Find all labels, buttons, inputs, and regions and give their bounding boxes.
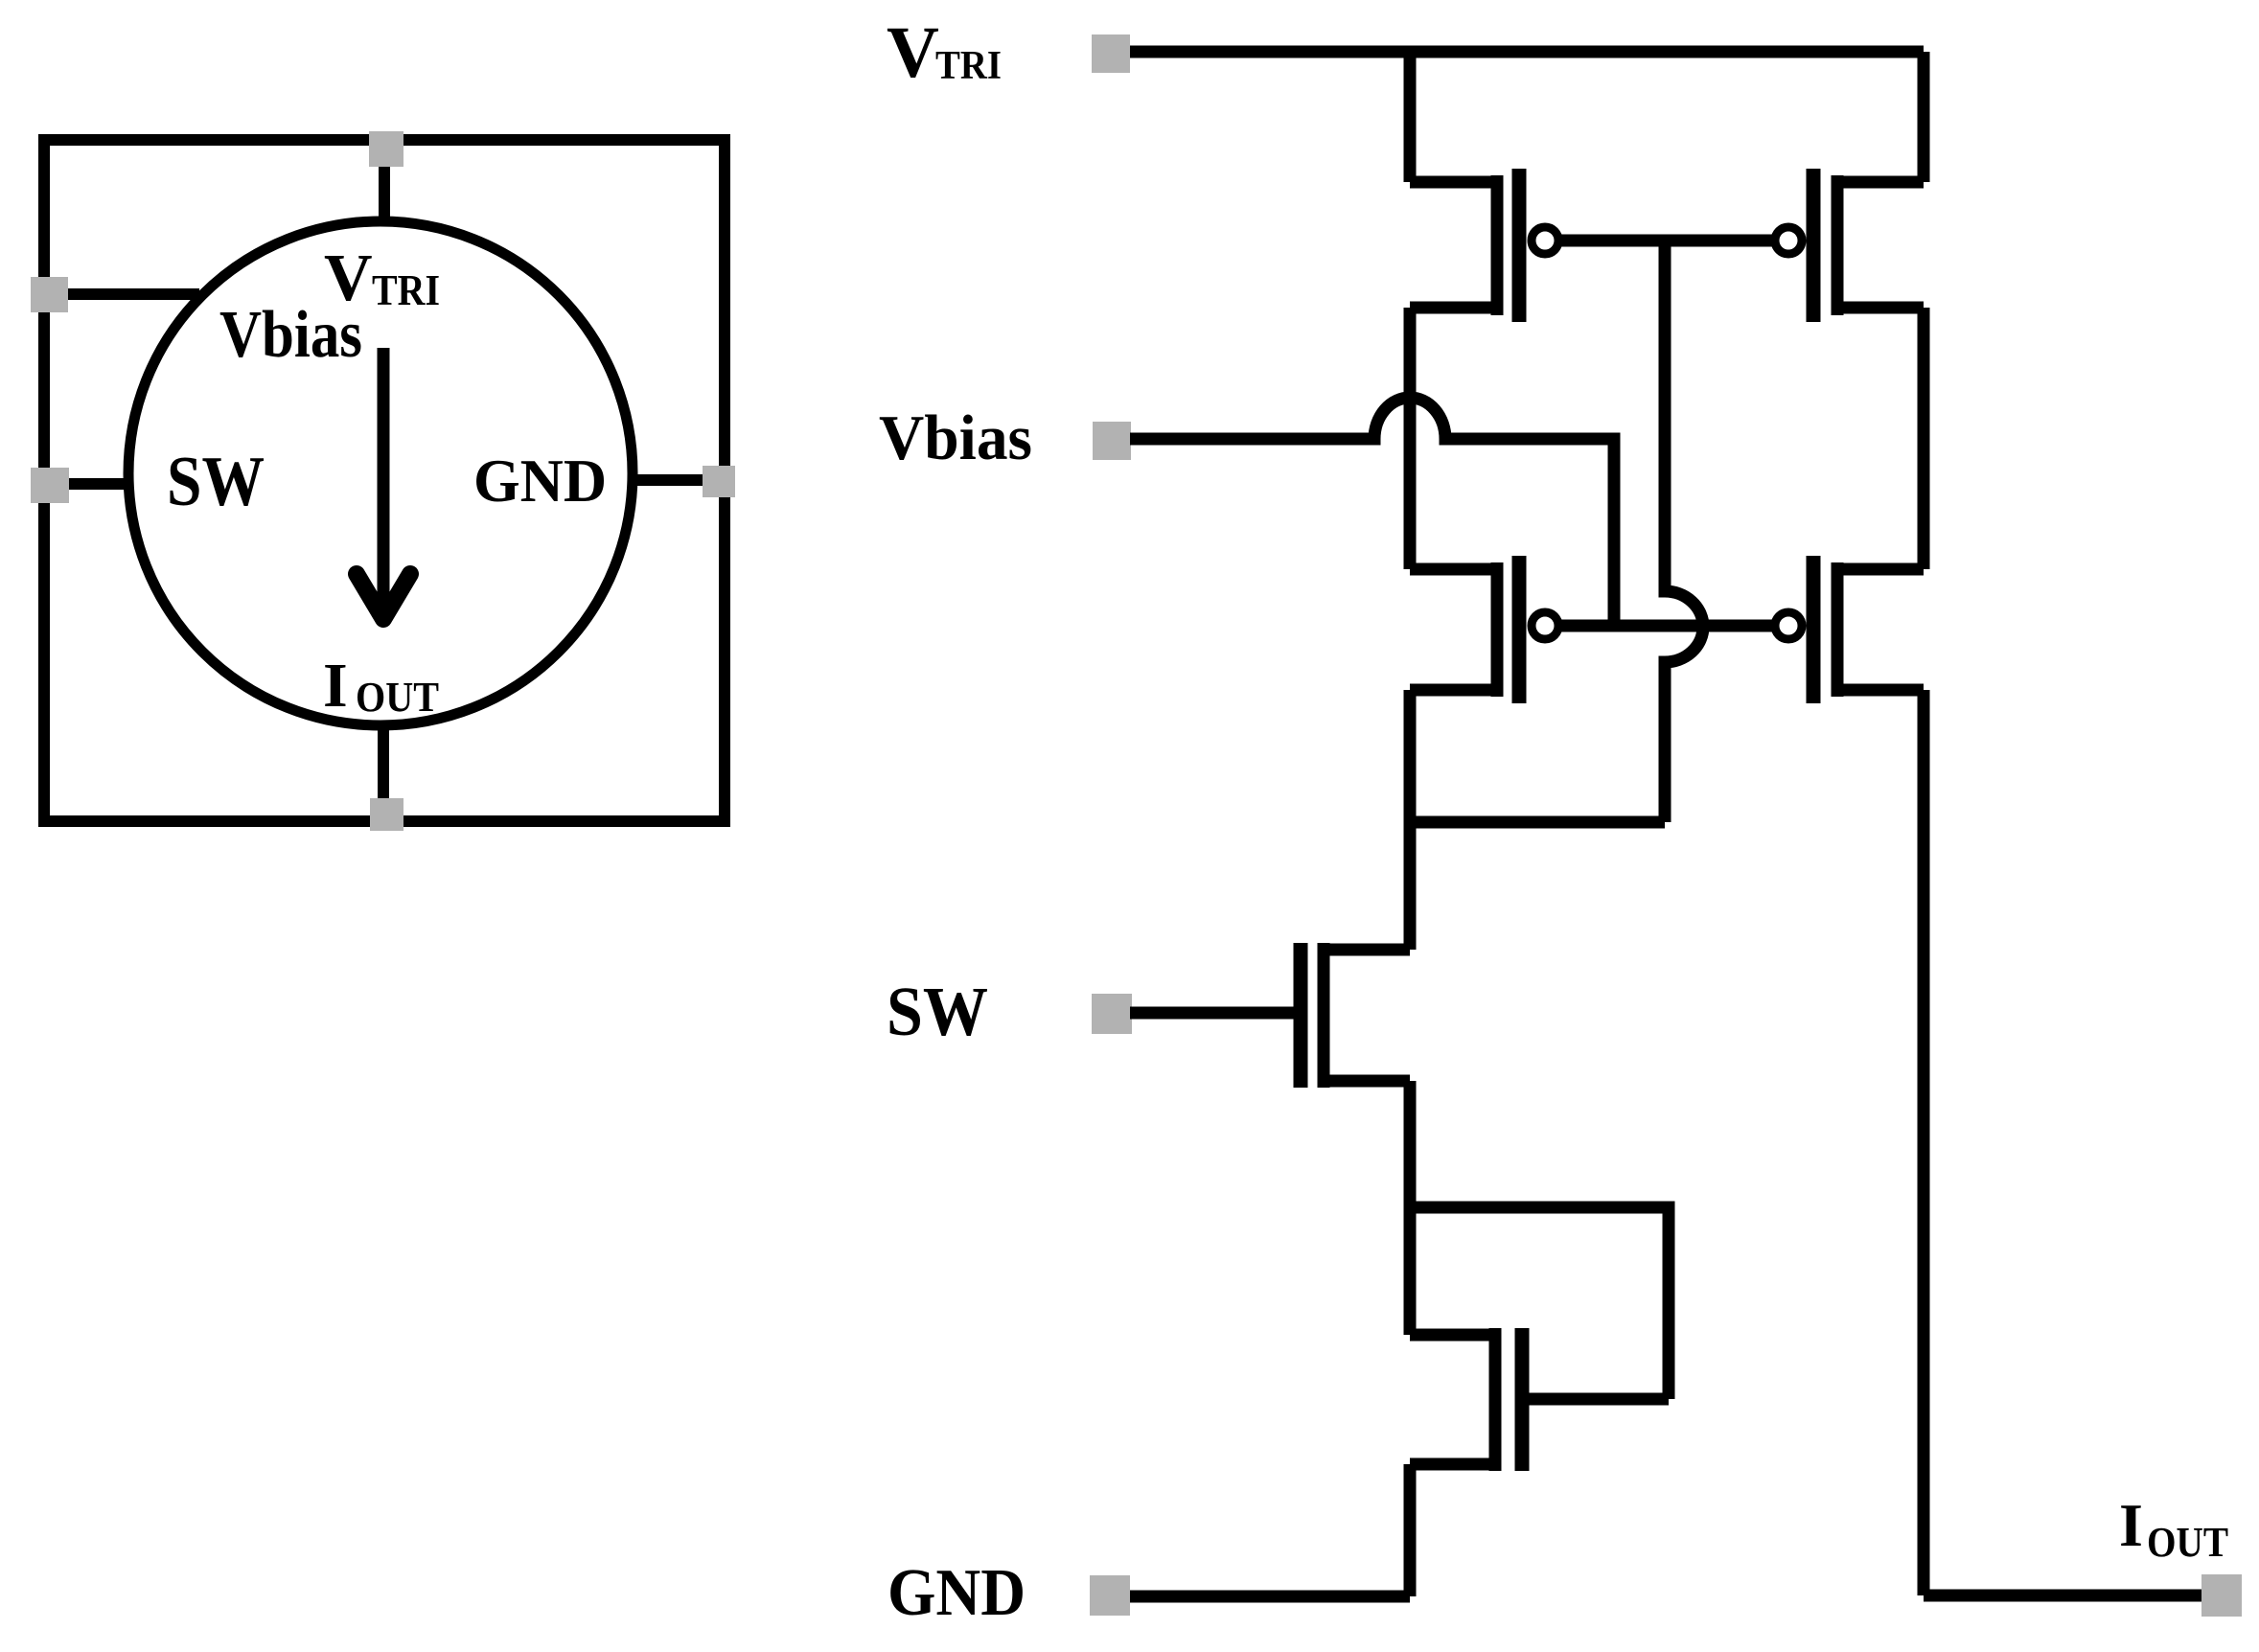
svg-text:SW: SW <box>167 443 265 521</box>
M5 gate bar <box>1294 943 1308 1088</box>
current source circle U1 <box>128 221 633 725</box>
M2 source stub <box>1839 176 1924 189</box>
transistor M4 (PMOS mid-right) <box>1775 556 1924 703</box>
M2 gate bar <box>1807 169 1821 322</box>
M5 channel bar <box>1318 943 1330 1088</box>
pad VTRI <box>1092 34 1130 73</box>
M3 source stub <box>1410 563 1495 576</box>
M6 gate bar <box>1515 1328 1530 1471</box>
transistor M5 (NMOS switch) <box>1301 943 1410 1088</box>
M6 gate wire <box>1522 1393 1669 1406</box>
wire VTRI rail <box>1130 46 1924 58</box>
M3 gate bubble <box>1532 612 1558 639</box>
wire right bus mid <box>1918 308 1930 569</box>
transistor M3 (PMOS mid-left) <box>1410 556 1558 703</box>
wire left bus top <box>1404 52 1417 182</box>
M4 channel bar <box>1832 562 1844 697</box>
M5 source stub <box>1325 944 1410 956</box>
pad right (GND) <box>703 466 735 497</box>
wire GND rail <box>1130 1591 1410 1603</box>
pad top (VTRI) <box>369 131 403 167</box>
wire right bus top <box>1918 52 1930 182</box>
svg-text:V: V <box>887 12 939 93</box>
M4 gate bar <box>1807 556 1821 703</box>
svg-text:I: I <box>2119 1491 2143 1559</box>
wire circle to bottom pad <box>378 724 389 816</box>
svg-text:GND: GND <box>473 447 607 515</box>
pad IOUT <box>2201 1574 2242 1617</box>
pad bottom (IOUT) <box>370 798 403 831</box>
wire SW to gate <box>1130 1007 1294 1020</box>
pad upper-left (Vbias) <box>31 277 68 312</box>
svg-text:OUT: OUT <box>2147 1519 2228 1566</box>
wire right bus long (drain M4 to IOUT) <box>1918 690 1930 1595</box>
transistor M2 (PMOS top-right) <box>1775 169 1924 322</box>
wire gate tie horizontal to left bus <box>1410 816 1665 829</box>
M3 gate bar <box>1512 556 1527 703</box>
M3 channel bar <box>1491 562 1504 697</box>
transistor M1 (PMOS top-left) <box>1410 169 1558 322</box>
wire top gate net M1-M2 <box>1559 235 1774 247</box>
M1 drain stub <box>1410 302 1495 314</box>
wire lower gate net M3-M4 <box>1559 620 1774 632</box>
M2 channel bar <box>1832 175 1844 315</box>
M6 channel bar <box>1489 1328 1502 1471</box>
pad SW <box>1092 994 1132 1034</box>
wire left bus lower <box>1404 690 1417 950</box>
M1 source stub <box>1410 176 1495 189</box>
transistor M6 (NMOS diode-connected) <box>1410 1328 1669 1471</box>
pad left (SW) <box>31 468 69 503</box>
wire Vbias with hop over left bus <box>1130 398 1614 626</box>
svg-text:SW: SW <box>887 973 988 1050</box>
wire circle to GND pad <box>633 474 721 486</box>
M3 drain stub <box>1410 684 1495 697</box>
M1 channel bar <box>1491 175 1504 315</box>
svg-text:TRI: TRI <box>372 265 440 314</box>
M4 source stub <box>1839 563 1924 576</box>
wire diode tie branch <box>1410 1207 1669 1399</box>
arrow shaft <box>378 348 390 617</box>
M4 drain stub <box>1839 684 1924 697</box>
wire M5 drain down <box>1404 1081 1417 1335</box>
pad GND <box>1090 1575 1130 1616</box>
arrow head <box>357 574 410 619</box>
wire upper-left pad to circle <box>44 288 199 300</box>
wire SW pad to circle <box>44 478 130 490</box>
pad Vbias <box>1093 422 1131 460</box>
wire gate tie vertical with hop over lower gate wire <box>1665 241 1703 822</box>
M2 gate bubble <box>1775 227 1802 254</box>
M2 drain stub <box>1839 302 1924 314</box>
svg-text:Vbias: Vbias <box>219 298 362 372</box>
M4 gate bubble <box>1775 612 1802 639</box>
wire M6 source to GND rail <box>1404 1464 1417 1596</box>
M1 gate bubble <box>1532 227 1558 254</box>
wire top pad to circle <box>379 144 390 222</box>
M6 drain stub <box>1410 1329 1493 1342</box>
svg-text:GND: GND <box>887 1556 1026 1630</box>
block outline square <box>44 140 725 821</box>
svg-text:OUT: OUT <box>356 674 439 721</box>
svg-text:I: I <box>323 651 348 721</box>
svg-text:TRI: TRI <box>935 44 1002 88</box>
M1 gate bar <box>1512 169 1527 322</box>
M6 source stub <box>1410 1458 1493 1471</box>
wire left bus mid <box>1404 308 1417 569</box>
wire IOUT <box>1924 1590 2222 1602</box>
M5 drain stub <box>1325 1075 1410 1088</box>
svg-text:Vbias: Vbias <box>879 402 1032 473</box>
